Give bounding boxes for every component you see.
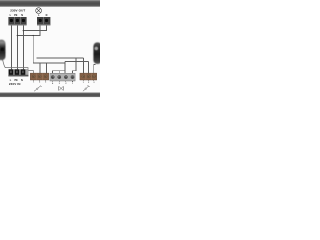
svg-text:1: 1 bbox=[83, 82, 84, 84]
switch symbol S2 bbox=[83, 85, 90, 91]
wire drop to X4 pin 3 bbox=[45, 63, 47, 73]
background bbox=[0, 0, 100, 100]
wire sensor B2 to X6 pin 3 bbox=[94, 65, 96, 74]
wire drop to X4 pin 2 bbox=[39, 63, 41, 73]
wire mid feed to S2 bbox=[65, 61, 89, 63]
terminal block X5 (controller, gray) bbox=[50, 73, 75, 81]
wire switched-line down-feed bbox=[33, 36, 65, 64]
pin stubs X4 X5 X6 bbox=[34, 80, 94, 82]
lamp E1 bbox=[36, 8, 42, 14]
wire comb to X5 pin 4 bbox=[53, 71, 65, 74]
svg-text:N: N bbox=[21, 79, 23, 82]
wire drop to X6 pin 1 bbox=[82, 58, 84, 73]
wire PE (X1 to X3) bbox=[16, 25, 18, 69]
actuator symbol M1 bbox=[59, 86, 64, 90]
wire upper feed to S2 bbox=[37, 57, 84, 59]
sensor B1 (photo, left) bbox=[0, 40, 6, 61]
wire lamp N branch bbox=[23, 25, 46, 30]
junction on lamp branch bbox=[33, 35, 34, 36]
svg-text:3: 3 bbox=[45, 82, 46, 84]
wire hook to X5 pin 1 bbox=[72, 58, 75, 73]
wire comb drop to X5 pin 3 bbox=[58, 71, 60, 74]
svg-text:3: 3 bbox=[93, 82, 94, 84]
wire drop to X5 pin 2 bbox=[64, 62, 66, 74]
svg-text:230V OUT: 230V OUT bbox=[10, 9, 25, 13]
wire sensor B1 cable to X4 pin 1 bbox=[3, 60, 34, 74]
svg-text:N: N bbox=[21, 14, 23, 17]
terminal block X6 (switch, right brown) bbox=[80, 73, 97, 80]
wire lamp L branch bbox=[17, 25, 40, 35]
top mounting rail bbox=[0, 0, 100, 7]
svg-text:PE: PE bbox=[14, 14, 18, 17]
terminal block X2 (lamp) bbox=[37, 17, 50, 25]
terminal block X4 (switch, left brown) bbox=[30, 73, 48, 80]
switch symbol S1 bbox=[34, 86, 42, 92]
bottom mounting rail bbox=[0, 92, 100, 97]
svg-text:1: 1 bbox=[72, 83, 73, 85]
svg-text:2: 2 bbox=[88, 82, 89, 84]
sensor B2 (photo, right) bbox=[93, 42, 101, 64]
svg-text:3: 3 bbox=[59, 83, 60, 85]
svg-text:230V IN: 230V IN bbox=[9, 82, 21, 86]
terminal block X1 (230V OUT) bbox=[8, 17, 26, 25]
junction on wire PE bbox=[17, 35, 18, 36]
junction on wire N bbox=[23, 30, 24, 31]
svg-text:2: 2 bbox=[39, 82, 40, 84]
wire N (X1 to X3) bbox=[22, 25, 24, 69]
wire L (X1 to X3) bbox=[10, 25, 12, 69]
svg-text:2: 2 bbox=[65, 83, 66, 85]
svg-text:1: 1 bbox=[33, 82, 34, 84]
wire drop to X6 pin 2 bbox=[88, 62, 90, 74]
terminal block X3 (230V IN) bbox=[8, 69, 28, 76]
svg-text:N: N bbox=[46, 14, 48, 17]
